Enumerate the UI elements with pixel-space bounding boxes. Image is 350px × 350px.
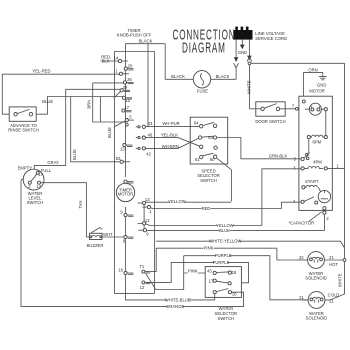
wire red to motor 4 [151,202,302,211]
svg-text:GND: GND [238,50,247,55]
svg-text:64: 64 [194,120,199,125]
timer right terminal 43 [136,121,180,128]
svg-text:39: 39 [122,85,127,90]
timer terminal 1 [115,68,129,75]
timer right terminal 46 [136,133,179,140]
svg-text:MOTOR: MOTOR [118,192,134,197]
wire orange from left bottom to water selector 16 [21,180,244,309]
svg-text:ORANGE: ORANGE [166,304,184,309]
svg-text:SERVICE CORD: SERVICE CORD [255,36,287,41]
title CONNECTION DIAGRAM [173,26,236,56]
svg-text:BLACK: BLACK [216,74,230,79]
svg-text:B1: B1 [116,156,122,161]
svg-text:WHITE: WHITE [247,80,252,94]
svg-text:WHITE-BLUE: WHITE-BLUE [165,297,191,302]
buzzer [87,228,104,248]
wire brn [86,83,125,122]
svg-text:BLUE: BLUE [42,99,53,104]
svg-text:4PM: 4PM [313,159,322,164]
svg-text:FUSE: FUSE [197,88,208,93]
svg-text:18: 18 [232,270,237,275]
motor run circle [318,190,330,202]
motor right terminal of centrifugal switch [324,108,327,111]
svg-text:SWITCH: SWITCH [218,316,235,321]
svg-text:RINSE SWITCH: RINSE SWITCH [8,128,38,133]
svg-text:COLD: COLD [328,293,340,298]
timer terminal 12b [140,281,151,290]
wire pink branch to hot solenoid 22 [277,248,297,260]
timer terminal 13 [120,144,132,152]
svg-text:20: 20 [128,63,133,68]
fuse F1 [171,71,229,94]
svg-text:BLACK: BLACK [171,74,185,79]
wire pink bundle [156,246,277,251]
timer terminal 39 [114,85,130,98]
svg-text:BUZZER: BUZZER [87,243,104,248]
wire white-blue to water selector [126,284,215,303]
timer terminal 20 [124,63,133,70]
svg-text:43: 43 [207,269,212,274]
svg-text:21: 21 [299,295,304,300]
svg-text:START: START [305,179,319,184]
wire door switch to motor pin 7 [280,104,299,111]
motor winding coil 4PM [293,159,327,170]
wire white horizontal to right rail [251,62,345,64]
svg-text:WHT: WHT [103,232,113,237]
svg-text:SOLENOID: SOLENOID [306,315,328,320]
wire yel-red top left [2,69,120,115]
svg-text:SWITCH: SWITCH [27,200,44,205]
wire blue to motor capacitor 2 [147,228,325,233]
node junction white [248,62,251,65]
svg-text:61: 61 [195,157,200,162]
motor terminal 5 [294,156,305,161]
svg-text:T1: T1 [139,264,145,269]
svg-text:PURPLE: PURPLE [213,260,230,265]
svg-text:26: 26 [127,77,132,82]
wire yellow bundle 1 [146,199,232,204]
wire white-yellow to white rail [156,239,345,248]
svg-text:PINK: PINK [188,268,198,273]
svg-text:43: 43 [148,121,153,126]
plug: line voltage service cord [234,27,288,41]
svg-text:HOT: HOT [329,262,338,267]
wire grn-blk speed selector to motor 5 [217,138,301,159]
wire black fuse right to connector [211,78,236,80]
svg-text:YEL-RED: YEL-RED [32,69,50,74]
svg-text:GRN-BLK: GRN-BLK [269,154,288,159]
svg-text:DIAGRAM: DIAGRAM [182,39,226,56]
svg-text:42: 42 [146,151,151,156]
timer terminal 15 [122,96,132,103]
capacitor label with leader [289,212,330,226]
speed selector switch box [190,117,228,183]
svg-text:GND: GND [317,82,326,87]
wire hot solenoid to white junction [324,255,344,267]
red-blk label [101,55,112,64]
timer terminal 14 [101,56,129,63]
motor winding coil 6PM [307,135,327,145]
motor box outline [299,96,332,210]
svg-text:16: 16 [118,268,123,273]
plug ground arrow GND [238,40,247,55]
wire pink down to timer T1 [150,248,156,271]
svg-text:21: 21 [329,255,334,260]
svg-text:GRAY: GRAY [47,160,59,165]
svg-text:13: 13 [145,197,150,202]
timer motor [116,183,134,201]
svg-text:WHITE-YELLOW: WHITE-YELLOW [209,239,241,244]
svg-text:WH-PUR: WH-PUR [162,121,179,126]
motor top-left terminal circle [302,100,305,103]
svg-text:MOTOR: MOTOR [309,88,325,93]
wire black from plug left prong down with connector splice [234,40,239,80]
svg-text:RED: RED [202,206,211,211]
timer label [117,28,153,43]
wire white junction to door switch [250,108,261,110]
svg-text:13: 13 [120,147,125,152]
pink label at water selector [188,268,198,273]
svg-text:YEL-BLK: YEL-BLK [161,133,178,138]
wire purple 1 [184,253,308,300]
svg-text:21: 21 [329,299,334,304]
wire wht buzzer to timer [102,232,124,237]
timer terminal 17 [122,105,132,112]
door switch [255,102,285,124]
wire blue from rinse switch to timer [36,97,122,115]
cold labels [325,293,339,304]
svg-text:BLK: BLK [102,59,110,64]
wire motor pin1 to white rail [327,163,344,168]
wire at 100 [99,97,101,123]
motor speed contacts [304,153,310,160]
svg-text:14: 14 [36,184,41,189]
svg-text:BLUE: BLUE [107,127,112,138]
wire speed selector 60 diagonal to red bundle [217,158,232,201]
wire blue vertical to B1 [71,97,120,162]
motor bottom capacitor terminals [323,207,326,215]
svg-text:DOOR SWITCH: DOOR SWITCH [255,119,285,124]
svg-text:SWITCH: SWITCH [200,178,217,183]
wire white down to door switch [247,65,252,109]
wire black fuse left to timer rail [165,78,193,80]
svg-text:6PM: 6PM [312,140,321,145]
svg-text:*CAPACITOR: *CAPACITOR [289,221,315,226]
water solenoid cold [306,292,328,321]
svg-text:PINK: PINK [204,246,214,251]
svg-text:17: 17 [124,105,129,110]
svg-text:12: 12 [145,218,150,223]
timer mid rail [143,203,145,230]
svg-text:14: 14 [114,56,119,61]
timer terminal 9b [138,229,149,237]
blade T1 [145,273,155,290]
wire orn motor ground [303,67,322,96]
water level switch [18,166,52,205]
wire gray water level to timer [34,89,120,169]
wire yellow bundle 2 to motor 3 [146,169,301,228]
wire white from plug right prong down to junction [247,40,252,62]
timer terminal 13b [138,197,151,204]
timer terminal 9 [120,210,133,217]
timer terminal T1 [139,264,150,273]
motor terminal 4 with contact [293,197,318,204]
timer terminal above motor [124,180,134,183]
wire purple riser with blade circuit [156,256,184,290]
node white junction at hot [343,259,346,262]
water selector switch box [205,267,241,321]
svg-text:EMPTY: EMPTY [18,166,33,171]
timer terminal 16 [118,268,133,275]
svg-text:46: 46 [148,133,153,138]
svg-text:12: 12 [140,285,145,290]
water solenoid hot [305,252,327,281]
timer terminal 5 with blade [115,115,135,127]
svg-text:BRN: BRN [86,100,91,109]
wire to cold solenoid left [299,295,308,300]
motor centrifugal switch [305,103,325,115]
svg-text:60: 60 [210,157,215,162]
svg-text:17: 17 [38,172,43,177]
svg-text:TAN: TAN [78,200,83,208]
svg-text:SOLENOID: SOLENOID [305,275,327,280]
svg-text:ORN: ORN [308,67,317,72]
wire wh-pur to speed selector [145,126,199,128]
ground symbol motor [309,77,327,94]
svg-text:KNOB-PUSH OFF: KNOB-PUSH OFF [117,32,152,37]
svg-text:PURPLE: PURPLE [215,253,232,258]
svg-text:22: 22 [299,255,304,260]
svg-text:BLACK: BLACK [139,38,153,43]
svg-text:YELLOW: YELLOW [168,199,186,204]
wire inside motor down right [325,111,327,136]
svg-text:63: 63 [208,135,213,140]
svg-text:BLUE: BLUE [72,149,77,160]
wire inside motor down left [308,139,310,154]
timer right terminal 42 [136,144,179,157]
timer box rails [114,44,165,294]
svg-text:WH-BRN: WH-BRN [162,144,179,149]
wire 22 to hot solenoid [297,255,308,260]
wire white right rail down [344,63,346,260]
wire purple 2 [146,260,249,283]
svg-text:BLUE: BLUE [219,228,230,233]
motor start winding [302,179,321,191]
timer terminal 12 [138,218,151,225]
wire tan water level 14 to buzzer [41,183,90,237]
timer terminal 26 [123,77,133,84]
svg-text:15: 15 [125,98,130,103]
svg-text:WHITE: WHITE [337,273,342,287]
advance to rinse switch [8,107,38,133]
wire yel-blk to speed selector crossing down [145,138,199,147]
timer terminal 8 junction [123,235,133,243]
wire wh-brn to speed selector crossing up [145,138,198,148]
svg-text:17: 17 [209,278,214,283]
timer terminal 1b [143,206,152,215]
wire blue to capacitor [324,214,326,230]
timer terminal B1 [116,156,130,163]
wire water level left to orange rail [21,179,23,181]
wire white down to cold solenoid [330,261,345,300]
wire pink into water selector [184,272,213,274]
